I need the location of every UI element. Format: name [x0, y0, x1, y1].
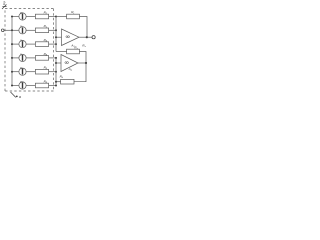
resistor R4 — [35, 56, 48, 61]
wire R2 to bus — [49, 29, 56, 31]
label v5 — [20, 66, 24, 71]
node dot A2 input — [55, 62, 57, 64]
wire: A1 summing bus — [55, 17, 57, 52]
label A1 — [70, 44, 75, 49]
infinity mark A1 — [66, 36, 70, 38]
source v4 — [12, 54, 35, 61]
wire R3 to bus — [49, 43, 56, 45]
wire: A2 summing bus — [55, 58, 57, 86]
node dot A1 input — [55, 36, 57, 38]
label v4 — [20, 52, 24, 57]
terminal (left common input) — [1, 29, 4, 32]
resistor R5 — [35, 69, 48, 74]
svg-text:a: a — [19, 95, 21, 99]
wire terminal to bus — [4, 29, 12, 31]
node 1 annotation (bottom-left) — [11, 92, 16, 97]
node dot A2 output — [85, 62, 87, 64]
node dot row5 bus — [55, 71, 57, 73]
wire A2 output down to Rb — [74, 63, 86, 82]
wire Ra to A2 output — [79, 52, 86, 64]
node 2 label (top-left) — [3, 1, 6, 6]
arrow marker top-left — [2, 5, 7, 10]
node dot Rb bus — [55, 81, 57, 83]
label Ra (node) — [82, 44, 86, 49]
wire Rf to output — [79, 17, 87, 38]
source v6 — [12, 82, 35, 89]
label v3 — [20, 39, 24, 44]
node dot row4 left — [11, 57, 13, 59]
resistor Rb — [61, 79, 74, 84]
wire R4 to bus — [49, 57, 56, 59]
wire: A1 input — [56, 36, 62, 38]
wire R5 to bus — [49, 71, 56, 73]
infinity mark A2 — [65, 62, 69, 64]
source v5 — [12, 68, 35, 75]
source v1 — [12, 13, 35, 20]
node dot row1 bus — [55, 16, 57, 18]
source v3 — [12, 41, 35, 48]
dashed box (source network enclosure) — [5, 9, 54, 91]
wire: A1 output — [79, 36, 92, 38]
label A2 — [68, 67, 73, 72]
node dot row6 bus — [55, 85, 57, 87]
op-amp A2 — [61, 55, 78, 72]
node dot A1 output — [86, 36, 88, 38]
label v1 — [20, 11, 24, 16]
wire: A2 output — [78, 62, 86, 64]
wire: A2 input — [56, 62, 61, 64]
wire R6 to bus — [49, 85, 56, 87]
output terminal — [92, 36, 95, 39]
node dot row3 left — [11, 43, 13, 45]
label v6 — [20, 80, 24, 85]
resistor R3 — [35, 42, 48, 47]
resistor R2 — [35, 28, 48, 33]
svg-text:2: 2 — [3, 1, 6, 6]
resistor Ra — [67, 49, 80, 54]
annotation dot — [16, 96, 18, 98]
node dot row5 left — [11, 71, 13, 73]
wire: left common bus — [11, 17, 13, 86]
node dot row2 bus — [55, 29, 57, 31]
node dot row4 bus — [55, 57, 57, 59]
wire: bus corner to Ra — [56, 51, 67, 53]
node dot row3 bus — [55, 43, 57, 45]
resistor R1 — [35, 14, 48, 19]
label v2 — [20, 25, 24, 30]
node dot row1 left — [11, 16, 13, 18]
annotation label — [19, 95, 21, 99]
wire R1 to bus — [49, 16, 56, 18]
source v2 — [12, 27, 35, 34]
op-amp A1 — [62, 29, 80, 46]
feedback resistor Rf wire from bus — [56, 16, 67, 18]
node dot row2 left — [11, 29, 13, 31]
wire Rb to bus — [56, 81, 61, 83]
node dot row6 left — [11, 85, 13, 87]
resistor R6 — [35, 83, 48, 88]
resistor Rf — [67, 14, 80, 19]
